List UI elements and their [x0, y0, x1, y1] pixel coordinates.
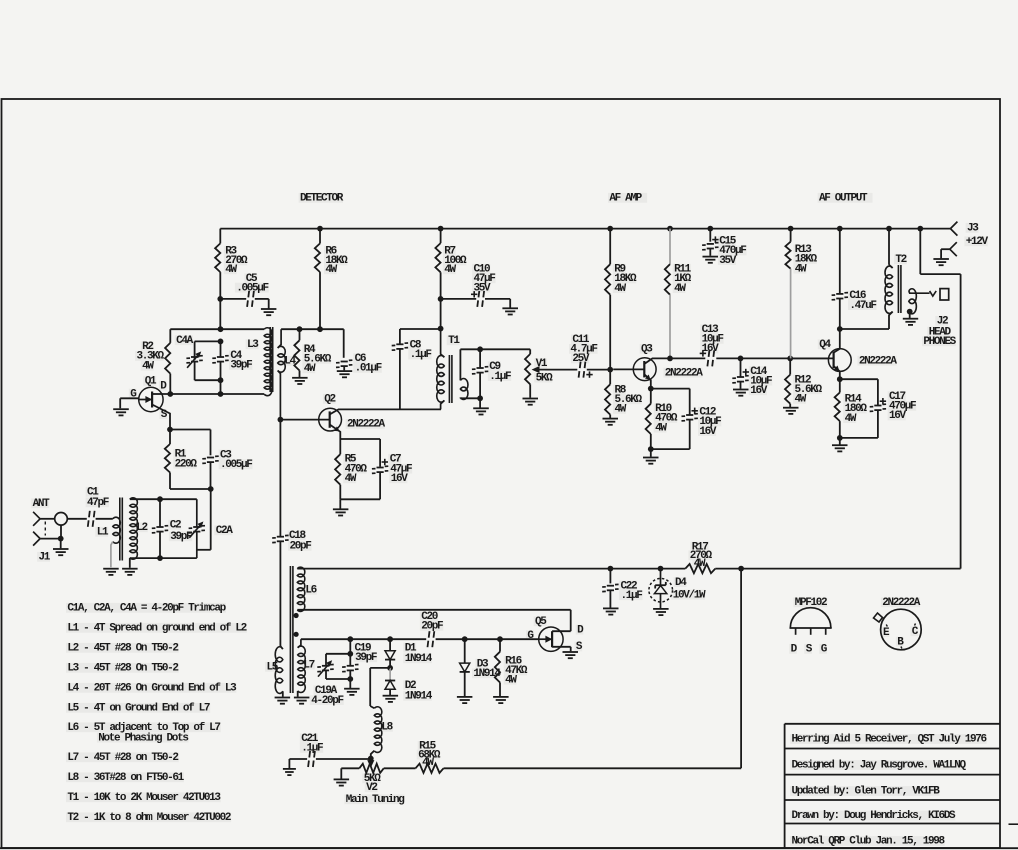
wire R16 lower lead — [499, 683, 501, 697]
wire Q1 drain rail — [163, 393, 264, 395]
wire T1 primary bottom lead — [441, 401, 445, 410]
wire C4A box top — [195, 340, 221, 342]
svg-text:Updated by: Glen Torr, VK1FB: Updated by: Glen Torr, VK1FB — [792, 786, 941, 798]
wire C7 lower lead — [379, 473, 381, 500]
ground R8 — [603, 419, 619, 425]
wire T1 sec to V1 — [460, 348, 530, 350]
wire L7 top lead — [298, 639, 301, 648]
node R14 bottom — [837, 435, 843, 441]
inductor L6 — [297, 567, 316, 611]
svg-text:T2 - 1K to 8 ohm Mouser 42TU00: T2 - 1K to 8 ohm Mouser 42TU002 — [67, 812, 231, 824]
wire C19A upper lead — [325, 654, 327, 666]
wire VFO supply rail right — [715, 568, 960, 570]
wire C3 top lead — [170, 430, 211, 456]
package 2N2222A — [874, 597, 922, 650]
wire emitter node rail — [340, 438, 380, 440]
svg-text:35V: 35V — [474, 282, 492, 294]
wire R4 lower lead — [299, 371, 301, 378]
capacitor C18 — [272, 530, 311, 553]
capacitor C7 — [372, 454, 412, 486]
svg-text:Note Phasing Dots: Note Phasing Dots — [98, 732, 188, 744]
resistor R10 — [646, 403, 678, 434]
svg-text:4W: 4W — [225, 264, 237, 276]
wire R14 top lead — [839, 379, 841, 392]
svg-text:4W: 4W — [345, 473, 357, 485]
wire R6 top lead — [319, 229, 321, 244]
svg-text:L3: L3 — [247, 339, 259, 351]
phasing dot L6 — [294, 613, 299, 618]
capacitor C8 — [392, 340, 432, 362]
label J2 HEADPHONES — [923, 316, 956, 349]
wire J3 ground lead — [941, 249, 950, 258]
wire D1 lower lead — [389, 660, 391, 668]
wire C19A bottom rail — [326, 678, 350, 680]
wire Q5 source lead — [552, 647, 571, 652]
svg-text:39pF: 39pF — [355, 652, 377, 664]
resistor R8 — [605, 384, 643, 415]
wire R13 bottom lead — [790, 269, 792, 359]
svg-text:25V: 25V — [572, 353, 590, 365]
ground C10 — [502, 308, 518, 314]
inductor L4 — [278, 346, 297, 372]
wire R15 to bias — [444, 767, 742, 769]
wire collector to C13 — [670, 357, 705, 359]
node C9 bottom — [477, 395, 483, 401]
svg-text:35V: 35V — [719, 255, 737, 267]
node C4 top — [218, 339, 224, 345]
node Q3 emitter — [648, 386, 654, 392]
wiper V2 arrow — [368, 759, 374, 767]
inductor L3 — [247, 328, 272, 396]
svg-text:16V: 16V — [391, 473, 409, 485]
capacitor C6 — [336, 353, 382, 375]
node C4/drain — [218, 391, 224, 397]
node bus junction — [886, 226, 892, 232]
wire tank gate line b — [350, 638, 426, 640]
wire R13 top lead — [790, 229, 792, 242]
ground R10 — [643, 458, 659, 464]
ground V1 — [523, 399, 539, 405]
svg-text:L6: L6 — [305, 585, 316, 597]
node bus junction — [788, 226, 794, 232]
wire tank gate line a — [301, 638, 350, 640]
svg-text:47pF: 47pF — [87, 497, 109, 509]
ground L1 — [103, 569, 119, 575]
resistor R4 — [294, 340, 332, 375]
wire J1 ground lead — [60, 539, 62, 549]
resistor R12 — [785, 374, 823, 405]
wire C12 top rail — [651, 388, 690, 390]
connector J2 jack body — [940, 289, 949, 300]
node R4 top — [297, 326, 303, 332]
capacitor C20 — [421, 611, 443, 647]
connector J3 pin — [950, 222, 988, 248]
resistor R7 — [435, 243, 467, 276]
inductor L8 — [374, 707, 393, 753]
wire C14 lower lead — [740, 382, 742, 389]
wire C7 upper lead — [379, 439, 381, 467]
ground T2 secondary — [903, 319, 918, 325]
wire R5 bottom lead — [339, 485, 341, 500]
svg-text:4W: 4W — [142, 360, 154, 372]
diode D2 — [385, 680, 433, 703]
wire L4 bottom lead — [278, 371, 281, 420]
wire C4A box bottom — [195, 379, 221, 381]
svg-text:L8 - 36T#28 on FT50-61: L8 - 36T#28 on FT50-61 — [67, 772, 184, 784]
wire right side +12V run — [960, 274, 962, 568]
wire T2 primary bottom lead — [889, 312, 893, 329]
ground L7 — [294, 698, 310, 704]
wire R10 ground lead — [650, 449, 652, 457]
wire Q2 base line — [280, 419, 329, 421]
svg-text:NorCal QRP Club Jan. 15, 1998: NorCal QRP Club Jan. 15, 1998 — [792, 836, 946, 848]
ground C21 — [283, 769, 296, 775]
svg-text:.01µF: .01µF — [355, 363, 382, 375]
wire tank gate line c — [436, 638, 503, 640]
label Main Tuning — [346, 794, 405, 806]
svg-text:16V: 16V — [699, 426, 717, 438]
node C22 top — [608, 566, 614, 572]
wire R2 top lead — [169, 329, 171, 343]
capacitor C1 — [87, 487, 109, 527]
svg-text:C1A, C2A, C4A = 4-20pF Trimcap: C1A, C2A, C4A = 4-20pF Trimcap — [67, 603, 226, 615]
capacitor C9 — [472, 361, 511, 383]
node C19A top — [347, 651, 353, 657]
wire C17 lower lead — [877, 410, 879, 438]
wire C9 ground lead — [479, 398, 481, 407]
wire R1 top lead — [169, 430, 171, 445]
wire R8 bottom lead — [609, 415, 611, 418]
node C19 top — [347, 636, 353, 642]
transistor Q5 — [527, 616, 584, 653]
wire Q5 drain lead — [552, 630, 571, 632]
ground C6 — [337, 371, 352, 377]
svg-text:Q5: Q5 — [535, 616, 547, 628]
node bus junction — [438, 226, 444, 232]
wire C5 left lead — [220, 298, 246, 300]
svg-text:16V: 16V — [889, 410, 907, 422]
svg-text:4W: 4W — [694, 558, 706, 570]
inductor L2 — [130, 498, 148, 559]
wire C4A upper lead — [194, 341, 196, 360]
svg-text:4W: 4W — [615, 404, 627, 416]
trim capacitor C19A — [311, 661, 343, 707]
resistor R13 — [785, 242, 817, 276]
resistor R3 — [215, 243, 248, 276]
svg-text:1N914: 1N914 — [405, 653, 433, 665]
svg-text:Q3: Q3 — [641, 344, 653, 356]
transformer T2 secondary — [909, 289, 917, 314]
capacitor C4 — [212, 350, 252, 372]
transformer T1 secondary — [460, 379, 468, 400]
wire C19 ground lead — [349, 679, 351, 688]
svg-text:.1µF: .1µF — [489, 371, 511, 383]
resistor R17 — [685, 541, 715, 573]
connector J1 sleeve — [33, 532, 40, 546]
wire C10 left lead — [441, 298, 477, 300]
section label DETECTOR — [300, 193, 344, 205]
svg-text:.005µF: .005µF — [236, 282, 268, 294]
wire C5 right lead — [255, 299, 269, 309]
svg-text:2N2222A: 2N2222A — [665, 367, 704, 379]
svg-text:20pF: 20pF — [290, 541, 312, 553]
svg-text:AF AMP: AF AMP — [609, 193, 642, 205]
wire R12 ground lead — [789, 404, 791, 407]
svg-text:4W: 4W — [614, 283, 626, 295]
wire C21 link — [316, 758, 371, 760]
svg-text:L5: L5 — [267, 662, 279, 674]
wire R4 upper lead — [299, 329, 301, 340]
text halo layer — [31, 193, 988, 846]
wire C12 lower lead — [689, 420, 691, 449]
wire C9 lower lead — [479, 373, 481, 398]
wire Q4 base lead — [793, 357, 833, 359]
svg-text:.1µF: .1µF — [301, 743, 323, 755]
trim capacitor C4A — [176, 335, 203, 368]
wire R14 bottom lead — [839, 421, 841, 438]
svg-text:L5 - 4T on Ground End of L7: L5 - 4T on Ground End of L7 — [67, 703, 210, 715]
transformer T1 primary — [437, 335, 461, 402]
wire varactor to L8 — [370, 706, 374, 708]
wire D1/D2 link — [389, 668, 391, 680]
wire C22 lower lead — [609, 591, 611, 608]
node T2 sec bottom — [907, 309, 913, 315]
svg-text:4W: 4W — [655, 422, 667, 434]
svg-text:L3 - 45T #28 On T50-2: L3 - 45T #28 On T50-2 — [67, 663, 178, 675]
notes list — [67, 603, 246, 825]
wire C19 mid lead — [349, 654, 351, 666]
capacitor C11 — [570, 334, 597, 378]
core L3/L4 — [270, 327, 273, 392]
svg-text:Drawn by: Doug Hendricks, KI6D: Drawn by: Doug Hendricks, KI6DS — [792, 810, 957, 822]
capacitor C15 — [702, 236, 746, 267]
ground L5 — [275, 698, 291, 704]
wire C10 right lead — [485, 299, 510, 308]
svg-text:J1: J1 — [39, 552, 51, 564]
wire C21 ground lead — [289, 759, 307, 768]
wire input tank top — [130, 498, 197, 500]
wire C14 upper lead — [740, 358, 742, 377]
resistor R16 — [495, 652, 528, 687]
wire C4 lower lead — [220, 362, 222, 394]
wire +12V top bus — [220, 228, 950, 230]
capacitor C21 — [301, 733, 323, 767]
svg-text:2N2222A: 2N2222A — [859, 355, 898, 367]
svg-text:V2: V2 — [366, 782, 377, 794]
section label AF OUTPUT — [819, 193, 868, 205]
core T2 — [898, 265, 901, 313]
svg-text:L4 - 20T #26 On Ground End of: L4 - 20T #26 On Ground End of L3 — [67, 683, 237, 695]
node Q3 base — [607, 367, 613, 373]
wire C9 upper lead — [479, 349, 481, 367]
wire V2 right lead — [384, 767, 416, 769]
wire V1 wiper to C11 — [545, 369, 577, 371]
wire R7 node to T1 node — [440, 299, 442, 329]
transistor Q4 — [819, 339, 897, 371]
wire C19 lower lead — [349, 671, 351, 679]
resistor R5 — [335, 454, 367, 486]
resistor R14 — [835, 393, 868, 425]
ground R16 — [493, 697, 509, 703]
node C2 top — [157, 496, 163, 502]
svg-text:T2: T2 — [895, 254, 906, 266]
wire Q1 drain lead — [152, 393, 163, 395]
wire D3 upper lead — [464, 639, 466, 662]
wire C22 upper lead — [609, 569, 611, 584]
diode D3 — [460, 658, 502, 680]
node R15 feed — [738, 566, 744, 572]
capacitor C12 — [682, 407, 722, 438]
svg-text:Herring Aid 5 Receiver, QST Ju: Herring Aid 5 Receiver, QST July 1976 — [792, 734, 987, 746]
wire V1 top lead — [529, 349, 531, 354]
wire C6 branch — [343, 329, 345, 358]
zener diode D4 — [649, 569, 706, 609]
wire collector to T2 — [840, 328, 889, 330]
svg-text:4W: 4W — [325, 264, 337, 276]
node C19A bottom — [347, 676, 353, 682]
wire VFO supply rail left — [297, 568, 685, 570]
wire T1 primary top lead — [441, 329, 445, 358]
wire Q3 emitter lead — [645, 375, 651, 389]
core L1/L2 — [120, 498, 123, 561]
wire jack to ground node — [60, 525, 62, 539]
wire tank top rail — [170, 328, 264, 330]
wire Q2 collector — [330, 409, 441, 414]
node tank top — [218, 326, 224, 332]
wire R11 bottom lead — [669, 295, 671, 359]
svg-text:L2: L2 — [136, 522, 147, 534]
node T1/C8/R7 — [438, 326, 444, 332]
wire C5 node to detector tank — [219, 299, 221, 329]
svg-text:Designed by: Jay Rusgrove. WA1: Designed by: Jay Rusgrove. WA1LNQ — [792, 760, 967, 772]
wire C4 upper lead — [220, 341, 222, 356]
svg-text:Q1: Q1 — [145, 376, 157, 388]
svg-text:.005µF: .005µF — [220, 459, 252, 471]
wire L8 bottom lead — [371, 751, 375, 759]
ground C22 — [603, 608, 619, 614]
node R7/C10 — [438, 296, 444, 302]
svg-text:C2A: C2A — [216, 525, 234, 537]
node R3/C5 — [217, 296, 223, 302]
resistor R11 — [665, 264, 692, 295]
node bus junction — [607, 226, 613, 232]
wire Q2 base to C18 — [279, 420, 281, 536]
wire L5 ground lead — [282, 691, 284, 697]
wire R8 top lead — [609, 370, 611, 385]
ground V2 — [334, 779, 350, 785]
wire T2 primary top lead — [889, 229, 893, 268]
wire R14 ground lead — [839, 438, 841, 445]
node Q3 collector — [667, 356, 673, 362]
wire Q3 collector lead — [645, 358, 670, 363]
package MPF102 — [790, 597, 832, 656]
connector J1 tip — [33, 512, 40, 526]
svg-text:L7 - 45T #28 on T50-2: L7 - 45T #28 on T50-2 — [67, 752, 178, 764]
wire C13 to Q4 base — [716, 357, 828, 359]
wire J1 tip lead — [40, 518, 55, 520]
svg-text:5KΩ: 5KΩ — [536, 372, 554, 384]
node R1/C3 — [208, 486, 214, 492]
ground C9 — [473, 408, 489, 414]
svg-text:2N2222A: 2N2222A — [882, 597, 921, 609]
ground R5 — [333, 509, 349, 515]
svg-text:Main Tuning: Main Tuning — [346, 794, 405, 806]
wire C15 lower lead — [709, 249, 711, 256]
wire D1 upper lead — [389, 639, 391, 650]
wire R7 to C10 node — [440, 272, 442, 299]
wire D2 ground lead — [389, 689, 391, 695]
label J1 — [39, 552, 51, 564]
wire Q3 base lead — [613, 368, 644, 370]
svg-text:4-20pF: 4-20pF — [311, 695, 343, 707]
svg-text:4W: 4W — [845, 413, 857, 425]
wire Q1 gate lead — [120, 398, 139, 408]
transistor Q3 — [633, 344, 703, 381]
node bus junction — [317, 226, 323, 232]
svg-text:.1µF: .1µF — [621, 590, 643, 602]
wire R7 top lead — [440, 229, 442, 244]
wire R5 top lead — [339, 439, 341, 454]
node Q4 collector — [837, 326, 843, 332]
wiper V1 arrow — [533, 367, 545, 373]
node Q1 source — [167, 427, 173, 433]
svg-text:C4A: C4A — [176, 335, 194, 347]
node C14 top — [738, 356, 744, 362]
svg-text:16V: 16V — [702, 343, 720, 355]
svg-text:2N2222A: 2N2222A — [347, 419, 386, 431]
wire T2 sec top lead — [909, 291, 930, 293]
wire T1 sec top lead — [459, 349, 461, 380]
wire Q5 gate lead — [503, 638, 539, 640]
wire R9 bottom lead — [609, 295, 611, 370]
wire Q4 collector lead — [834, 329, 840, 353]
svg-text:.1µF: .1µF — [410, 349, 432, 361]
ground C19 — [344, 689, 360, 695]
wire C8 lower lead — [399, 349, 401, 409]
label ANT — [33, 498, 51, 510]
node bus junction — [667, 226, 673, 232]
wire C16 lower lead — [839, 299, 841, 329]
node bus junction — [837, 226, 843, 232]
node R2/drain — [167, 391, 173, 397]
svg-text:PHONES: PHONES — [923, 336, 956, 348]
wire C2 lower lead — [159, 532, 161, 558]
diode D1 — [385, 642, 433, 665]
inductor L7 — [298, 646, 315, 692]
wire C15 upper lead — [709, 229, 711, 242]
svg-text:4W: 4W — [444, 264, 456, 276]
ground C15 — [703, 257, 719, 263]
node D3 top — [462, 636, 468, 642]
ground C14 — [733, 390, 749, 396]
wire V2 left lead — [341, 768, 359, 778]
wire C16 upper lead — [839, 229, 841, 294]
node bus junction — [917, 226, 923, 232]
svg-text:39pF: 39pF — [230, 360, 252, 372]
wire circle to C1 — [67, 518, 87, 520]
node C2 bottom — [157, 555, 163, 561]
wire R1 bottom lead — [170, 473, 211, 490]
ground R4 — [292, 378, 308, 384]
wire C12 upper lead — [689, 389, 691, 415]
connector J2 plug chevron — [930, 291, 937, 296]
wire C4A lower lead — [194, 361, 196, 380]
phasing dot L7 — [294, 632, 299, 637]
node bus junction — [707, 226, 713, 232]
wire R11 top lead — [669, 229, 671, 265]
ground D3 — [457, 697, 473, 703]
wire R12 top lead — [789, 358, 791, 374]
